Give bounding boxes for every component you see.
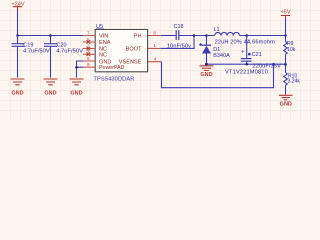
node junction BOOT/PH bbox=[193, 34, 196, 37]
IC U5 TPS5430DDAR body bbox=[95, 30, 147, 72]
resistor R9 bbox=[284, 36, 296, 65]
power +5V bbox=[280, 9, 290, 18]
capacitor C21 bbox=[241, 36, 262, 65]
node junction D1 cathode bbox=[205, 34, 208, 37]
node junction GND/PowerPAD bbox=[75, 66, 78, 69]
node junction at C20 bbox=[49, 34, 52, 37]
pin names bbox=[99, 34, 142, 72]
svg-text:5: 5 bbox=[87, 37, 90, 42]
power +24V bbox=[11, 2, 24, 11]
svg-text:D1: D1 bbox=[213, 47, 220, 53]
capacitor C20 bbox=[44, 36, 83, 78]
svg-text:2: 2 bbox=[87, 43, 90, 48]
wire C18 to node bbox=[179, 35, 206, 37]
ground under R10 bbox=[279, 95, 293, 100]
wire VSENSE feedback run bbox=[162, 62, 274, 88]
sheet background bbox=[0, 0, 320, 120]
svg-text:VT1V221M0810: VT1V221M0810 bbox=[225, 70, 268, 76]
wire BOOT riser bbox=[161, 36, 194, 49]
inductor L1 bbox=[207, 27, 276, 46]
svg-text:GND: GND bbox=[44, 90, 56, 96]
svg-text:PowerPAD: PowerPAD bbox=[99, 65, 125, 71]
svg-text:GND: GND bbox=[70, 90, 82, 96]
svg-text:PH: PH bbox=[134, 34, 142, 40]
svg-text:9: 9 bbox=[87, 62, 90, 67]
svg-text:GND: GND bbox=[200, 72, 212, 78]
wire +5V riser bbox=[285, 18, 287, 36]
svg-text:GND: GND bbox=[11, 90, 23, 96]
ground under D1 bbox=[200, 66, 214, 71]
wire PH to C18 bbox=[161, 35, 176, 37]
svg-text:C21: C21 bbox=[252, 52, 262, 58]
pin stubs right bbox=[148, 36, 162, 62]
node junction FB/R9/R10 bbox=[284, 63, 287, 66]
svg-text:3: 3 bbox=[87, 49, 90, 54]
resistor R10 bbox=[284, 64, 301, 94]
svg-text:6: 6 bbox=[87, 56, 90, 61]
node junction C21 top bbox=[245, 34, 248, 37]
svg-text:TPS5430DDAR: TPS5430DDAR bbox=[93, 77, 134, 83]
svg-text:C20: C20 bbox=[57, 42, 67, 48]
svg-text:3.24k: 3.24k bbox=[288, 79, 301, 85]
svg-text:8: 8 bbox=[153, 30, 156, 35]
svg-text:BOOT: BOOT bbox=[126, 47, 142, 53]
svg-text:GND: GND bbox=[280, 101, 292, 107]
svg-text:4.7uF/50V: 4.7uF/50V bbox=[23, 49, 50, 55]
svg-text:B340A: B340A bbox=[213, 53, 230, 59]
svg-text:C19: C19 bbox=[23, 42, 33, 48]
diode D1 B340A bbox=[199, 36, 230, 65]
svg-text:C18: C18 bbox=[174, 24, 184, 30]
svg-text:NC: NC bbox=[99, 52, 107, 58]
svg-text:1: 1 bbox=[153, 43, 156, 48]
wire +24V riser bbox=[17, 10, 19, 36]
node junction D1 anode / gnd bbox=[205, 63, 208, 66]
pin numbers bbox=[87, 30, 157, 67]
node junction +5V/R9 bbox=[284, 34, 287, 37]
wire L1 to +5V node bbox=[240, 35, 286, 37]
no-connect X marks bbox=[87, 40, 91, 56]
wire FB line D1-C21-R divider bbox=[207, 63, 286, 65]
svg-text:220uF/35V: 220uF/35V bbox=[253, 63, 281, 69]
svg-text:4.7uF/50V: 4.7uF/50V bbox=[56, 49, 83, 55]
node junction VSENSE riser bbox=[272, 63, 275, 66]
svg-text:22uH 20% 4A 66mohm: 22uH 20% 4A 66mohm bbox=[215, 39, 275, 45]
svg-text:4: 4 bbox=[154, 57, 157, 62]
ground under IC bbox=[70, 79, 84, 85]
wire VIN bus bbox=[18, 35, 84, 37]
pin stubs left bbox=[83, 36, 95, 68]
svg-text:VIN: VIN bbox=[99, 34, 108, 40]
node junction C21 bottom bbox=[245, 63, 248, 66]
capacitor C19 bbox=[12, 36, 50, 78]
ground under C20 bbox=[44, 79, 58, 85]
node junction at +24V/C19 bbox=[16, 34, 19, 37]
capacitor C18 bbox=[167, 24, 191, 49]
svg-text:ENA: ENA bbox=[99, 40, 111, 46]
svg-text:+5V: +5V bbox=[280, 9, 290, 15]
svg-text:7: 7 bbox=[87, 30, 90, 35]
wire IC GND pin to ground bbox=[77, 61, 84, 78]
ground under C19 bbox=[11, 79, 25, 85]
svg-text:10k: 10k bbox=[287, 47, 296, 53]
svg-text:VSENSE: VSENSE bbox=[119, 60, 142, 66]
